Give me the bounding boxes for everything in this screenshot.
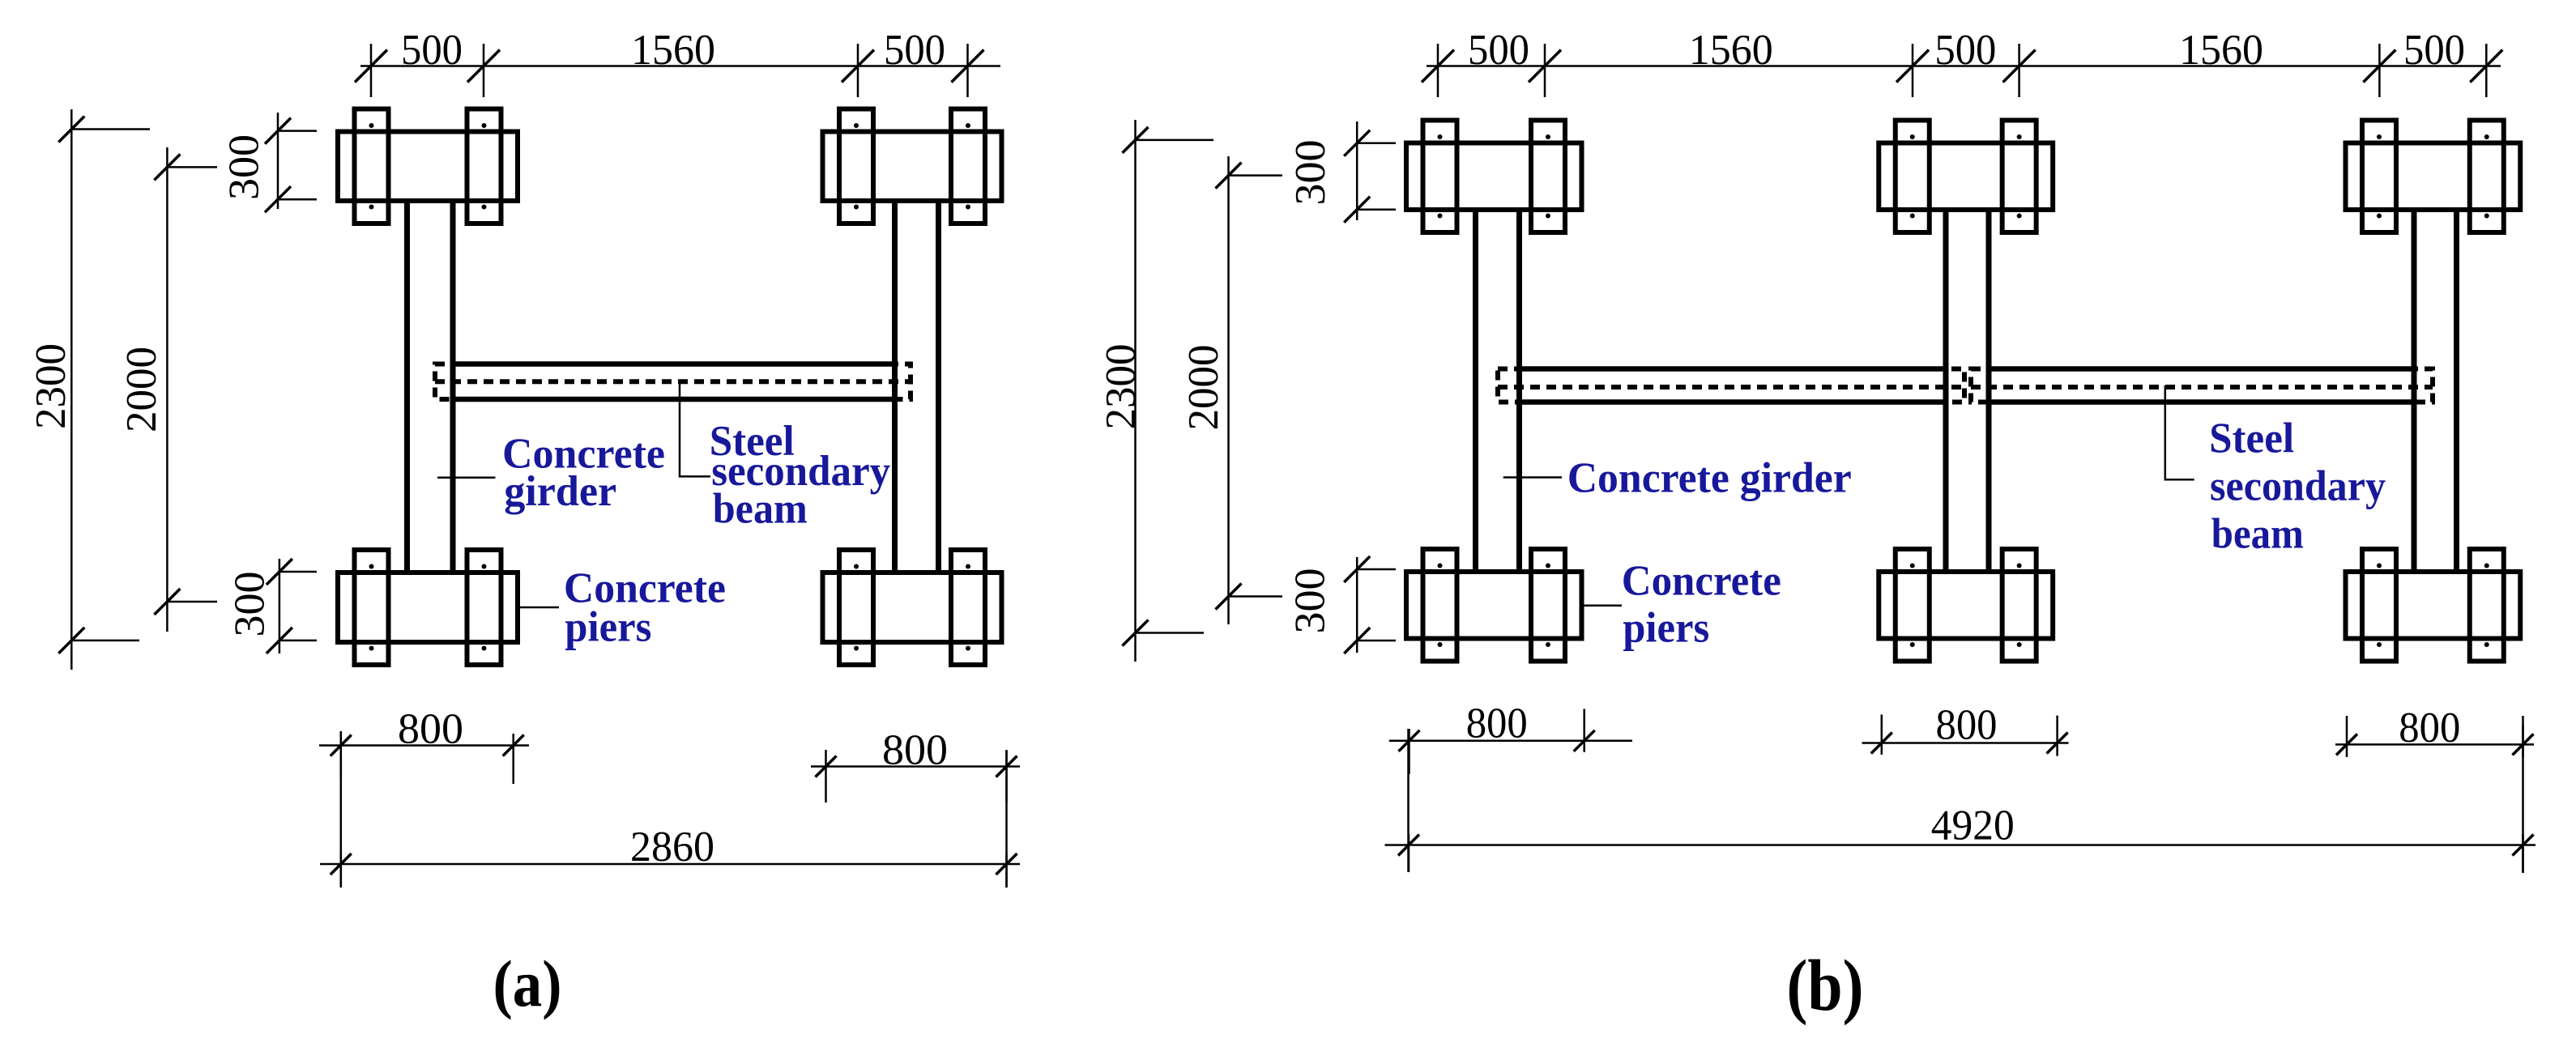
tick t1 (b top dim) <box>1422 44 1454 97</box>
dim line 800 right (a) <box>811 765 1020 768</box>
leader steel secondary beam (a) <box>680 384 710 476</box>
svg-text:500: 500 <box>884 27 945 74</box>
pier dot B-BL-P1 top <box>1438 564 1443 568</box>
concrete pier B-TM-P1 (b) <box>1896 121 1930 233</box>
pier dot B-TM-P1 top <box>1910 134 1915 139</box>
svg-text:2000: 2000 <box>118 347 165 432</box>
tick 300t-1 (a) <box>265 118 317 144</box>
pier dot B-TL-P1 bottom <box>1438 214 1443 219</box>
steel secondary beam A hidden (dashed) outline <box>435 364 911 400</box>
tick t6 (b top dim) <box>2470 44 2502 97</box>
tick 800R-1 (a) <box>816 750 837 802</box>
pier dot B-TR-P2 bottom <box>2484 214 2489 219</box>
concrete pier cap A-BR (a) <box>823 573 1002 642</box>
concrete pier cap B-TM (b) <box>1879 143 2053 211</box>
concrete pier A-BL-P1 (a) <box>355 550 389 665</box>
svg-text:2860: 2860 <box>630 824 714 871</box>
steel secondary beam A bottom edge <box>453 397 895 402</box>
svg-text:Steel: Steel <box>2209 415 2294 462</box>
svg-text:2300: 2300 <box>1098 344 1145 430</box>
pier dot B-TR-P2 top <box>2484 134 2489 139</box>
svg-text:1560: 1560 <box>1689 27 1773 74</box>
svg-text:500: 500 <box>2403 27 2465 74</box>
svg-text:800: 800 <box>398 706 463 753</box>
dim line 800 left (a) <box>319 744 529 747</box>
tick 2000 top (b) <box>1216 163 1283 189</box>
pier dot B-TM-P2 top <box>2017 134 2022 139</box>
concrete pier B-BM-P1 (b) <box>1896 549 1930 662</box>
pier dot A-TL-P2 top <box>482 123 487 128</box>
steel secondary beam B2 hidden (dashed) outline <box>1971 369 2433 402</box>
svg-text:500: 500 <box>1934 27 1996 74</box>
tick at 1059 (a top dim) <box>842 44 874 97</box>
dim line 500/1560/500 (a) <box>360 65 1000 67</box>
pier dot B-BM-P2 bottom <box>2017 642 2022 647</box>
dim line 800-1 (b) <box>1389 740 1632 743</box>
tick 300b-1 (a) <box>267 559 317 585</box>
tick 2300 bottom (b) <box>1123 620 1205 646</box>
pier dot B-BR-P1 bottom <box>2377 642 2382 647</box>
pier dot A-BR-P1 bottom <box>854 646 859 651</box>
dim line 300 top (a) <box>277 113 279 209</box>
svg-text:secondary: secondary <box>2210 463 2386 510</box>
pier dot A-TR-P2 bottom <box>966 205 970 210</box>
tick 800-3L (b) <box>2336 716 2357 757</box>
svg-text:girder: girder <box>504 468 616 515</box>
pier dot B-TM-P1 bottom <box>1910 214 1915 219</box>
concrete pier cap A-BL (a) <box>338 573 518 642</box>
tick 2300 top (a) <box>58 117 150 143</box>
extension line right (b bottom) <box>2522 725 2524 873</box>
svg-text:piers: piers <box>1623 605 1709 652</box>
concrete girder B-right left edge <box>2412 212 2417 569</box>
concrete pier A-TL-P1 (a) <box>355 109 389 224</box>
steel secondary beam B2 centerline (dashed) <box>1971 385 2433 390</box>
dim line 800-3 (b) <box>2335 743 2534 746</box>
concrete girder A-right left edge <box>892 203 898 570</box>
pier dot B-TL-P1 top <box>1438 134 1443 139</box>
pier dot B-BR-P2 bottom <box>2484 642 2489 647</box>
svg-text:800: 800 <box>1936 702 1998 749</box>
steel secondary beam B2 top edge <box>1989 366 2414 372</box>
concrete pier B-BR-P2 (b) <box>2470 549 2504 662</box>
svg-text:Concrete girder: Concrete girder <box>1567 455 1852 502</box>
svg-text:300: 300 <box>1287 140 1334 206</box>
pier dot A-BR-P2 top <box>966 564 970 569</box>
tick 2000 bottom (a) <box>154 589 217 615</box>
steel secondary beam B1 bottom edge <box>1520 399 1947 405</box>
tick 800R-2 (a) <box>996 750 1017 802</box>
pier dot B-BL-P2 bottom <box>1546 642 1550 647</box>
svg-text:1560: 1560 <box>2179 27 2263 74</box>
concrete pier B-TR-P1 (b) <box>2362 121 2396 233</box>
pier dot B-TL-P2 top <box>1546 134 1550 139</box>
extension line left (b bottom) <box>1407 729 1410 872</box>
pier dot A-TR-P2 top <box>966 123 970 128</box>
extension line right (a bottom) <box>1005 751 1008 888</box>
steel secondary beam B2 bottom edge <box>1989 399 2414 405</box>
concrete pier B-TR-P2 (b) <box>2470 121 2504 233</box>
leader concrete girder (b) <box>1503 476 1562 479</box>
pier dot B-BM-P1 top <box>1910 564 1915 568</box>
tick 800-1L (b) <box>1399 729 1420 774</box>
pier dot A-BR-P1 top <box>854 564 859 569</box>
concrete pier cap B-BM (b) <box>1879 572 2053 639</box>
svg-text:2000: 2000 <box>1180 345 1227 431</box>
pier dot A-TL-P2 bottom <box>482 205 487 210</box>
tick t5 (b top dim) <box>2363 44 2395 97</box>
steel secondary beam B1 hidden (dashed) outline <box>1498 369 1964 402</box>
concrete pier A-TR-P1 (a) <box>839 109 873 224</box>
concrete pier cap A-TL (a) <box>338 132 518 202</box>
concrete pier B-BL-P2 (b) <box>1531 549 1565 662</box>
pier dot A-BR-P2 bottom <box>966 646 970 651</box>
svg-text:beam: beam <box>713 485 808 532</box>
svg-text:(a): (a) <box>493 947 562 1020</box>
svg-text:Concrete: Concrete <box>1622 557 1781 604</box>
dim line 300 top (b) <box>1356 121 1358 220</box>
concrete pier cap B-BL (b) <box>1406 572 1582 639</box>
leader concrete girder (a) <box>437 476 496 479</box>
leader steel secondary beam (b) <box>2165 385 2194 479</box>
concrete pier B-TM-P2 (b) <box>2002 121 2036 233</box>
steel secondary beam B1 centerline (dashed) <box>1498 385 1964 390</box>
pier dot A-TL-P1 top <box>369 123 374 128</box>
pier dot B-BM-P2 top <box>2017 564 2022 568</box>
svg-text:300: 300 <box>227 572 274 637</box>
tick t4 (b top dim) <box>2003 44 2036 97</box>
extension line left (a bottom) <box>340 731 343 888</box>
steel secondary beam A centerline (dashed) <box>435 379 911 384</box>
tick 2300 bottom (a) <box>58 628 139 653</box>
dim line 500/1560/500/1560/500 (b) <box>1427 65 2501 67</box>
svg-text:800: 800 <box>882 727 948 774</box>
tick 800-2L (b) <box>1871 714 1892 755</box>
concrete pier A-BL-P2 (a) <box>467 550 501 665</box>
tick 300t-1 (b) <box>1344 130 1396 156</box>
pier dot B-BM-P1 bottom <box>1910 642 1915 647</box>
svg-text:beam: beam <box>2211 511 2304 558</box>
concrete girder A-left left edge <box>404 203 410 570</box>
tick 300b-2 (b) <box>1344 628 1396 653</box>
concrete girder A-left right edge <box>450 203 456 570</box>
tick 800L-2 (a) <box>503 734 524 784</box>
tick 800-3R (b) <box>2513 716 2534 757</box>
tick 2000 bottom (b) <box>1216 584 1283 610</box>
concrete pier B-TL-P1 (b) <box>1423 121 1457 233</box>
concrete pier cap B-TR (b) <box>2346 143 2521 211</box>
concrete pier cap B-BR (b) <box>2346 572 2521 639</box>
tick 300b-2 (a) <box>267 628 317 653</box>
concrete pier A-TR-P2 (a) <box>951 109 985 224</box>
pier dot B-TL-P2 bottom <box>1546 214 1550 219</box>
dim line 2000 (a) <box>166 147 168 632</box>
concrete pier B-BR-P1 (b) <box>2362 549 2396 662</box>
tick 300t-2 (b) <box>1344 197 1396 223</box>
concrete girder B-right right edge <box>2454 212 2459 569</box>
tick t3 (b top dim) <box>1896 44 1929 97</box>
pier dot A-BL-P1 bottom <box>369 646 374 651</box>
svg-text:300: 300 <box>1287 568 1334 634</box>
dim line 300 bottom (a) <box>279 559 281 653</box>
leader concrete piers (a) <box>520 607 559 609</box>
svg-text:(b): (b) <box>1787 946 1864 1026</box>
concrete pier B-BL-P1 (b) <box>1423 549 1457 662</box>
dim line 800-2 (b) <box>1862 742 2069 744</box>
concrete pier A-TL-P2 (a) <box>467 109 501 224</box>
pier dot A-BL-P2 bottom <box>482 646 487 651</box>
pier dot B-BR-P1 top <box>2377 564 2382 568</box>
concrete girder B-left right edge <box>1516 212 1522 569</box>
steel secondary beam B1 top edge <box>1520 366 1947 372</box>
concrete girder A-right right edge <box>936 203 941 570</box>
dim line 2300 (a) <box>70 109 73 670</box>
pier dot A-TL-P1 bottom <box>369 205 374 210</box>
concrete girder B-left left edge <box>1473 212 1478 569</box>
svg-text:2300: 2300 <box>28 343 75 429</box>
svg-text:4920: 4920 <box>1931 802 2015 849</box>
tick at 1194.5 (a top dim) <box>952 44 984 97</box>
pier dot B-TR-P1 top <box>2377 134 2382 139</box>
concrete pier A-BR-P2 (a) <box>951 550 985 665</box>
svg-text:piers: piers <box>565 603 651 650</box>
concrete pier cap B-TL (b) <box>1406 143 1582 211</box>
tick 800-1R (b) <box>1574 709 1595 751</box>
tick at 597 (a top dim) <box>467 44 500 97</box>
svg-text:800: 800 <box>1466 700 1528 747</box>
concrete pier B-TL-P2 (b) <box>1531 121 1565 233</box>
leader concrete piers (b) <box>1584 604 1623 607</box>
pier dot B-BL-P2 top <box>1546 564 1550 568</box>
pier dot B-TR-P1 bottom <box>2377 214 2382 219</box>
tick 300t-2 (a) <box>265 186 317 212</box>
dim line 2860 (a) <box>320 863 1020 866</box>
dim line 300 bottom (b) <box>1356 557 1358 653</box>
svg-text:1560: 1560 <box>631 27 715 74</box>
tick 4920-R (b) <box>2513 834 2534 872</box>
svg-text:500: 500 <box>1468 27 1529 74</box>
dim line 4920 (b) <box>1385 844 2536 846</box>
tick 2000 top (a) <box>154 154 217 180</box>
svg-text:300: 300 <box>221 134 268 200</box>
pier dot A-TR-P1 bottom <box>854 205 859 210</box>
concrete girder B-middle left edge <box>1943 212 1949 569</box>
tick 4920-L (b) <box>1398 834 1419 872</box>
svg-text:500: 500 <box>401 27 463 74</box>
tick 2300 top (b) <box>1123 127 1214 153</box>
pier dot A-BL-P2 top <box>482 564 487 569</box>
tick 800-2R (b) <box>2047 716 2068 756</box>
tick 2860-1 (a) <box>331 853 352 888</box>
pier dot B-BL-P1 bottom <box>1438 642 1443 647</box>
pier dot A-BL-P1 top <box>369 564 374 569</box>
pier dot B-TM-P2 bottom <box>2017 214 2022 219</box>
tick 2860-2 (a) <box>996 853 1017 888</box>
tick 800L-1 (a) <box>331 731 352 778</box>
dim line 2000 (b) <box>1227 156 1230 624</box>
concrete pier A-BR-P1 (a) <box>839 550 873 665</box>
tick at 458 (a top dim) <box>355 44 387 97</box>
dim line 2300 (b) <box>1134 120 1137 662</box>
tick 300b-1 (b) <box>1344 556 1396 582</box>
svg-text:800: 800 <box>2399 705 2460 751</box>
concrete pier cap A-TR (a) <box>823 132 1002 202</box>
tick t2 (b top dim) <box>1529 44 1561 97</box>
concrete pier B-BM-P2 (b) <box>2002 549 2036 662</box>
steel secondary beam A top edge <box>453 361 895 367</box>
pier dot B-BR-P2 top <box>2484 564 2489 568</box>
concrete girder B-middle right edge <box>1986 212 1992 569</box>
pier dot A-TR-P1 top <box>854 123 859 128</box>
